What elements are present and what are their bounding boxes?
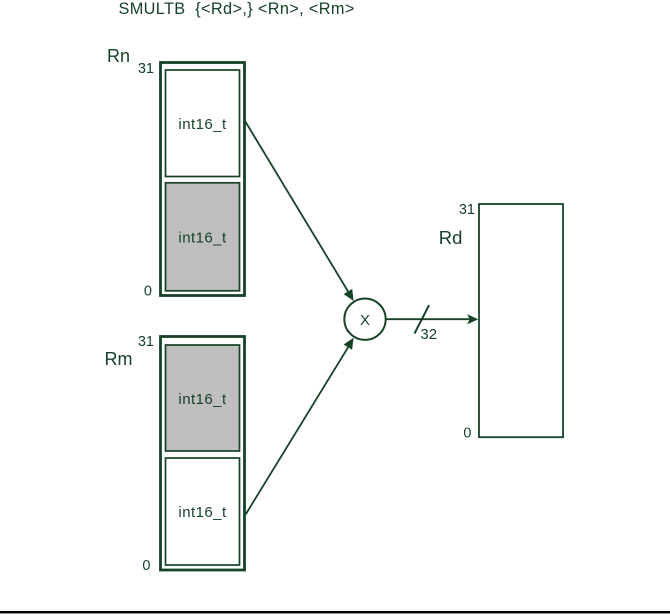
footer rule [0,611,670,613]
svg-text:Rd: Rd [439,227,463,248]
svg-text:31: 31 [459,202,475,218]
svg-text:Rm: Rm [105,349,133,369]
svg-text:int16_t: int16_t [178,504,227,521]
svg-text:SMULTB {<Rd>,} <Rn>, <Rm>: SMULTB {<Rd>,} <Rn>, <Rm> [119,0,355,18]
multiplier circle U1 [344,299,385,340]
svg-text:int16_t: int16_t [178,230,227,247]
svg-text:X: X [360,312,370,329]
register Rn outer box [161,63,245,296]
wire from multiplier to Rd [387,318,471,320]
svg-text:0: 0 [142,558,150,574]
svg-text:31: 31 [138,334,154,350]
svg-text:31: 31 [138,61,154,77]
arrowhead into Rd [467,314,478,324]
svg-text:Rn: Rn [107,46,130,66]
svg-text:0: 0 [144,284,152,300]
register Rm top half int16_t (shaded) [166,345,240,451]
svg-text:32: 32 [420,326,437,343]
arrowhead into multiplier from Rm [344,338,354,350]
svg-text:int16_t: int16_t [178,116,227,133]
bus width slash [415,305,430,334]
register Rn bottom half int16_t (shaded) [166,183,240,291]
arrowhead into multiplier from Rn [344,289,354,301]
register Rn top half int16_t (white) [166,70,240,177]
register Rd box [479,204,563,437]
wire from Rn top half to multiplier [245,122,349,293]
register Rm outer box [161,337,245,571]
svg-text:int16_t: int16_t [178,391,227,408]
register Rm bottom half int16_t (white) [166,458,240,565]
wire from Rm bottom half to multiplier [246,346,349,515]
svg-text:0: 0 [463,425,471,441]
